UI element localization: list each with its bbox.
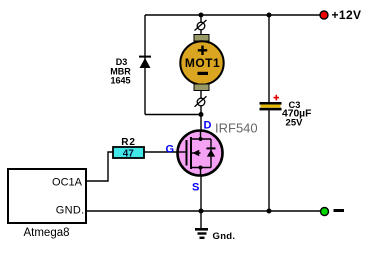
wire motor bottom branch bbox=[200, 88, 202, 115]
wire C3 top bbox=[268, 15, 270, 103]
mosfet source stub bbox=[191, 167, 211, 169]
svg-text:S: S bbox=[192, 182, 199, 194]
svg-text:IRF540: IRF540 bbox=[215, 121, 258, 136]
capacitor C3 labels bbox=[282, 100, 311, 128]
wire left loop bottom horizontal bbox=[145, 114, 201, 116]
mosfet channel line bbox=[190, 137, 192, 169]
resistor R2 bbox=[113, 147, 144, 158]
minus dash after green terminal bbox=[334, 209, 345, 212]
mosfet main vertical drain segment bbox=[200, 131, 202, 139]
node junction top motor bbox=[199, 13, 204, 18]
mosfet drain stub bbox=[191, 138, 211, 140]
wire source bbox=[200, 175, 202, 211]
motor terminal block bottom bbox=[194, 84, 209, 91]
mosfet inner junction bottom bbox=[199, 166, 203, 170]
svg-text:Atmega8: Atmega8 bbox=[23, 227, 69, 239]
wire C3 bottom bbox=[268, 109, 270, 211]
svg-text:R2: R2 bbox=[121, 137, 135, 148]
wire motor top branch bbox=[200, 15, 202, 36]
wire bottom rail bbox=[87, 210, 320, 212]
wire top rail +12V bbox=[145, 14, 320, 16]
IC Atmega8 box bbox=[8, 169, 86, 223]
svg-text:D3: D3 bbox=[116, 57, 128, 67]
wire OC1A to R2 bbox=[87, 152, 113, 181]
mosfet gate lead inside bbox=[177, 151, 187, 153]
svg-text:D: D bbox=[204, 120, 212, 132]
mosfet main vertical source segment bbox=[200, 168, 202, 177]
node junction source rail bbox=[199, 209, 204, 214]
svg-text:+12V: +12V bbox=[332, 8, 362, 22]
motor plus mark bbox=[198, 46, 207, 55]
mosfet inner junction top bbox=[199, 137, 203, 141]
motor terminal block top bbox=[194, 35, 209, 42]
connector plug bottom of motor bbox=[195, 96, 207, 107]
diode D3 symbol bbox=[139, 56, 151, 68]
svg-text:G: G bbox=[166, 144, 175, 156]
connector plug top of motor bbox=[195, 20, 207, 31]
mosfet body diode branch bbox=[207, 139, 216, 168]
node junction C3 rail bbox=[267, 209, 272, 214]
wire drain bbox=[200, 115, 202, 133]
node junction drain loop bbox=[199, 112, 204, 117]
svg-text:25V: 25V bbox=[286, 117, 304, 128]
terminal output (green) bbox=[321, 208, 329, 216]
motor minus mark bbox=[198, 72, 209, 75]
svg-text:Gnd.: Gnd. bbox=[213, 231, 236, 242]
wire left loop vertical (diode branch) bbox=[144, 15, 146, 115]
svg-text:1645: 1645 bbox=[110, 76, 130, 86]
terminal +12V (red) bbox=[320, 11, 328, 19]
capacitor C3 plus polarity bbox=[274, 95, 280, 101]
motor MOT1 body bbox=[180, 41, 223, 84]
node junction top C3 bbox=[267, 13, 272, 18]
diode D3 labels bbox=[110, 57, 131, 86]
mosfet gate plate bbox=[186, 140, 188, 166]
svg-text:OC1A: OC1A bbox=[52, 177, 83, 189]
svg-text:GND.: GND. bbox=[56, 205, 85, 217]
svg-text:47: 47 bbox=[123, 149, 135, 160]
wire R2 to gate bbox=[144, 151, 178, 153]
transistor Q1 IRF540 mosfet body bbox=[178, 131, 223, 176]
capacitor C3 symbol bbox=[260, 102, 282, 110]
svg-text:MOT1: MOT1 bbox=[185, 56, 220, 70]
ground symbol bbox=[195, 211, 208, 239]
mosfet body arrow bbox=[191, 150, 201, 157]
